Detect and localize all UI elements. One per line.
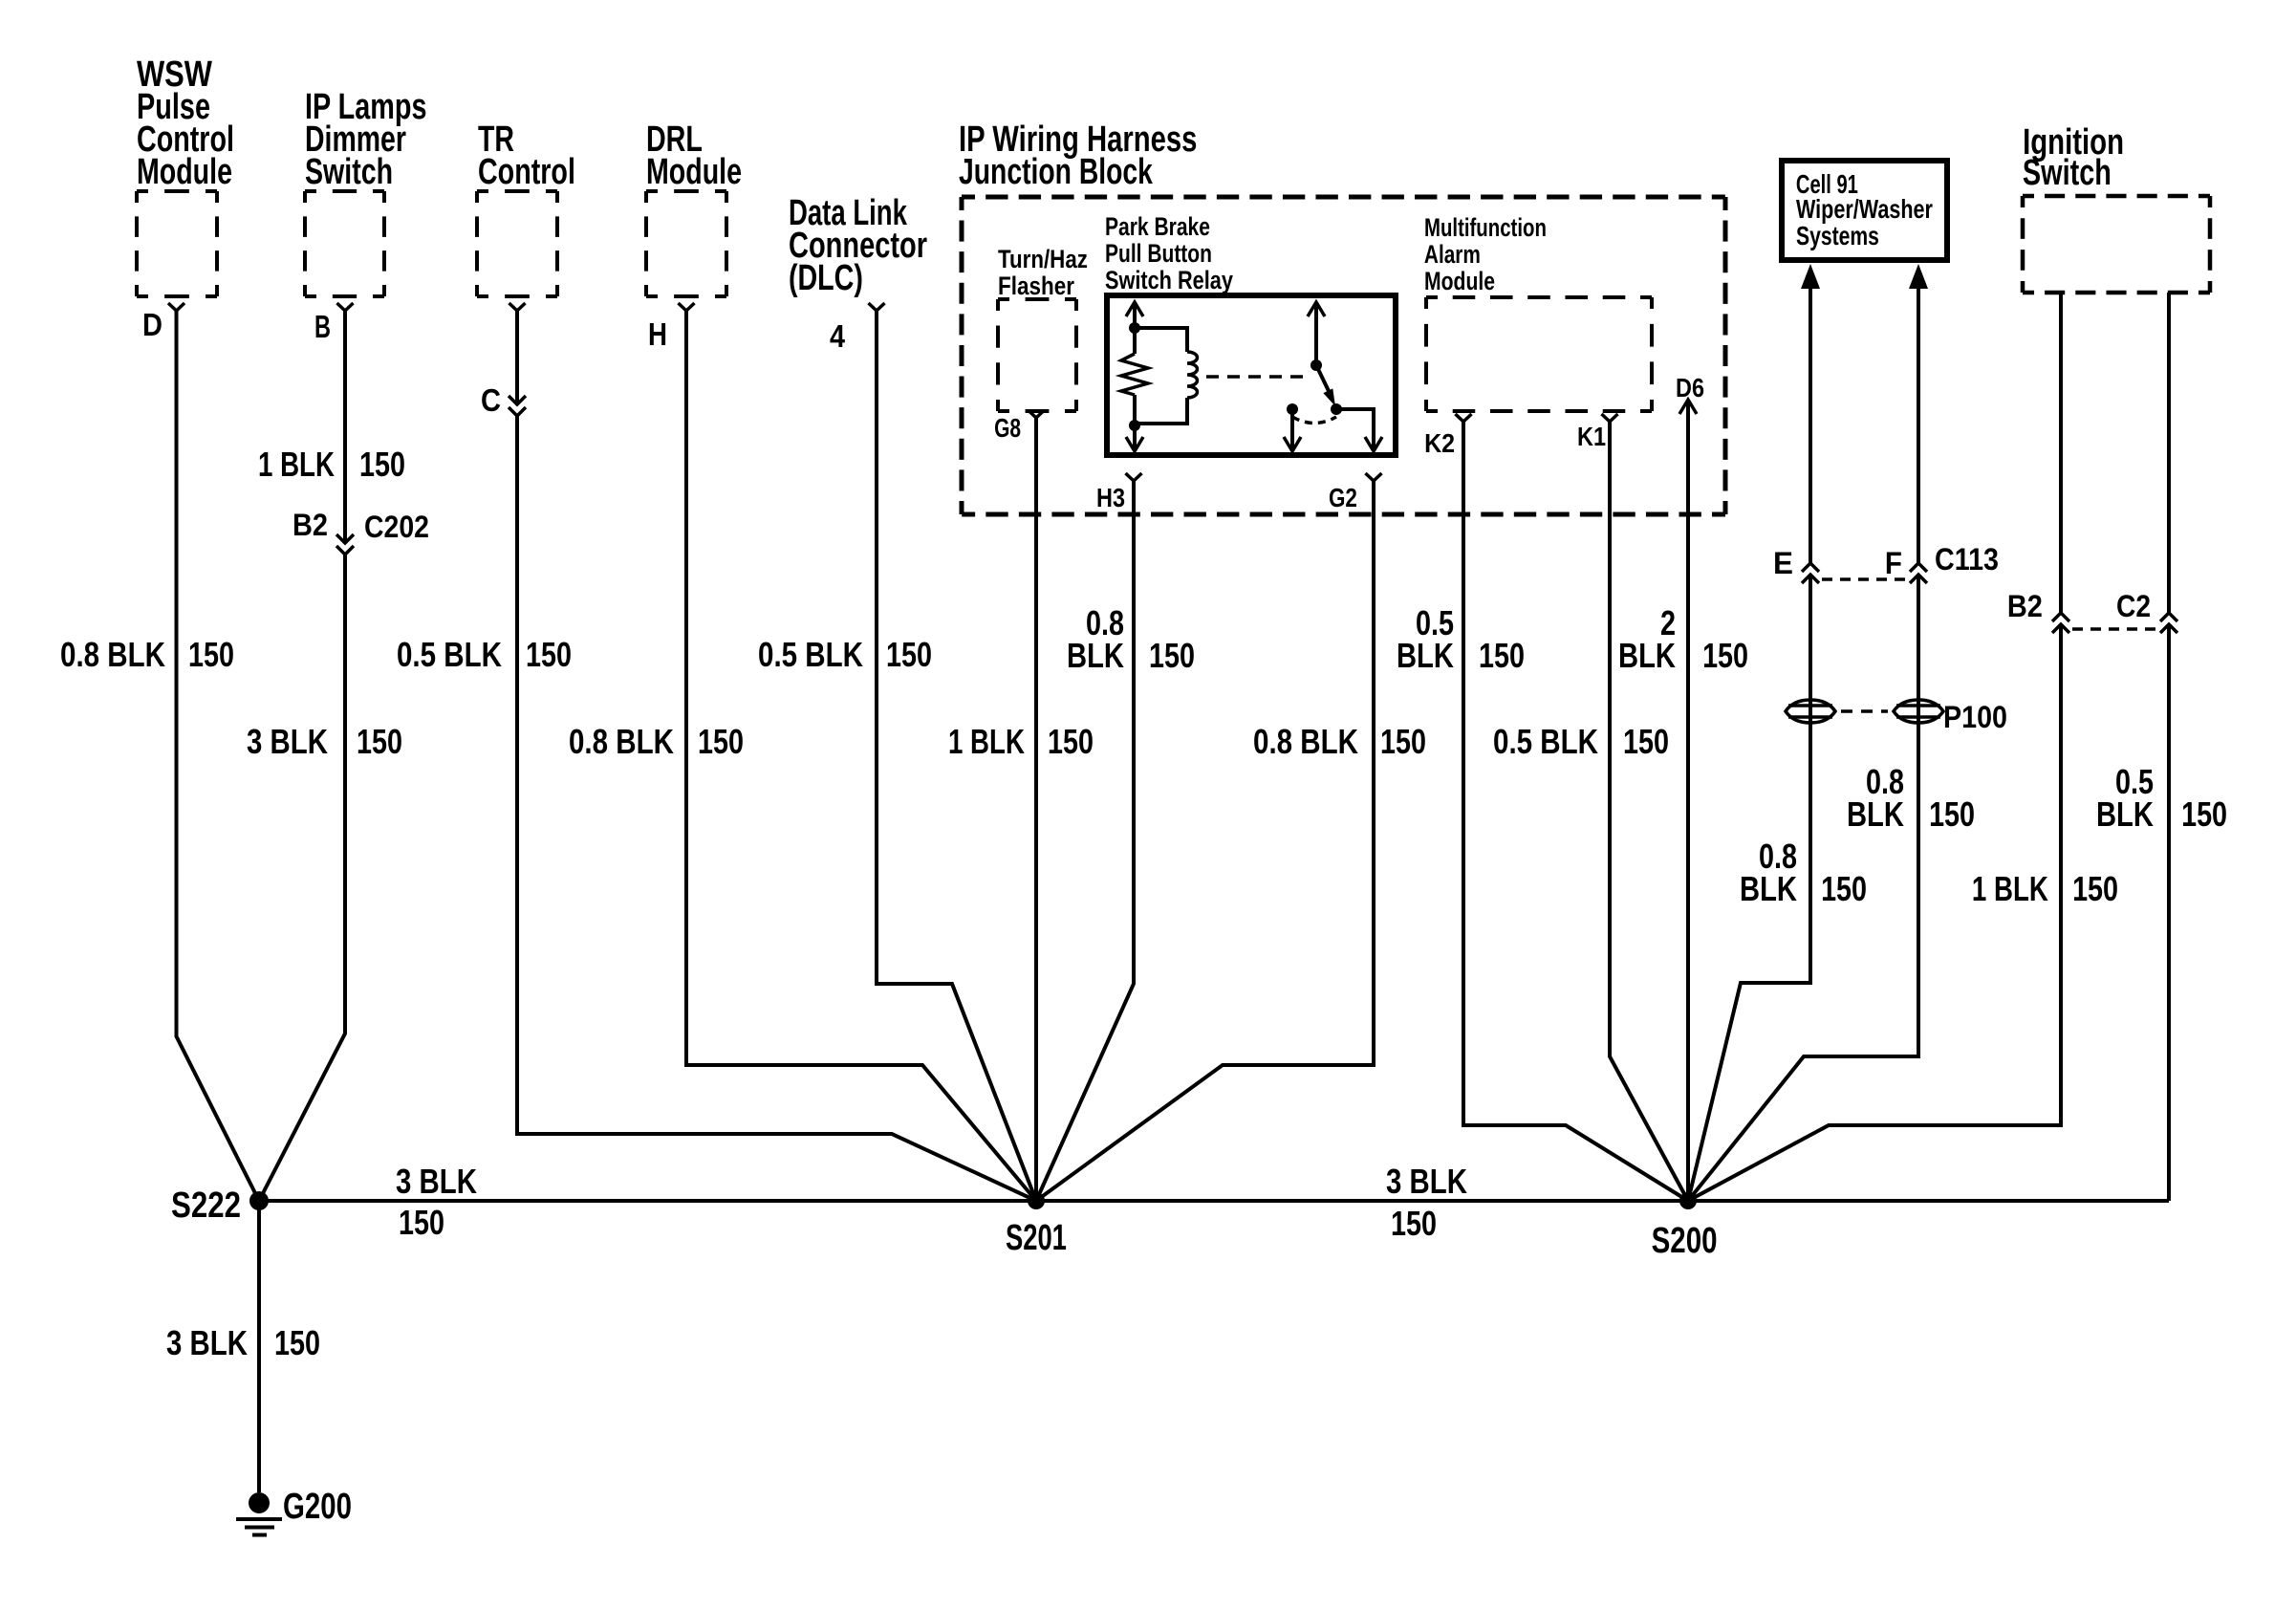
- connector pin of TR Control: [509, 303, 526, 311]
- node Data Link Connector (DLC): [789, 193, 927, 298]
- svg-text:H3: H3: [1096, 484, 1125, 512]
- connector pin K2 of Multifunction Alarm Module: [1424, 414, 1471, 458]
- svg-text:150: 150: [359, 446, 405, 484]
- module Ignition Switch (dashed box): [2023, 121, 2210, 293]
- svg-text:C2: C2: [2116, 590, 2151, 623]
- connector pin G8 of Turn/Haz Flasher: [994, 410, 1044, 444]
- wire 3 BLK 150 from C202 to splice S222: [247, 555, 402, 1201]
- svg-text:S201: S201: [1006, 1218, 1067, 1258]
- wire ground bus 3 BLK 150 (S222 to S201 to S200 to C2 wire): [259, 1162, 2169, 1243]
- svg-text:Wiper/Washer: Wiper/Washer: [1796, 194, 1933, 224]
- svg-text:150: 150: [2181, 795, 2227, 834]
- connector C (inline double chevron on TR wire): [481, 382, 526, 418]
- wire 0.8 BLK 150 from pin D to splice S222: [60, 311, 259, 1201]
- connector pin G2 of relay: [1329, 473, 1382, 513]
- svg-text:150: 150: [357, 723, 402, 761]
- svg-text:(DLC): (DLC): [789, 258, 863, 298]
- svg-text:4: 4: [830, 318, 846, 354]
- svg-text:Pull Button: Pull Button: [1105, 240, 1212, 269]
- connector C202 pin B2 (inline double chevron): [292, 509, 429, 555]
- splice S222: [171, 1186, 269, 1226]
- relay switch blade with solid arrowhead: [1316, 365, 1335, 406]
- svg-text:BLK: BLK: [1067, 636, 1124, 675]
- svg-text:G200: G200: [283, 1486, 352, 1526]
- svg-text:B2: B2: [292, 509, 328, 543]
- svg-text:B: B: [314, 310, 331, 345]
- wire from TR Control to connector C: [515, 311, 519, 404]
- connector pin K1 of Multifunction Alarm Module: [1577, 414, 1617, 452]
- wire F with solid arrow into Cell 91: [1909, 264, 1928, 563]
- svg-text:Flasher: Flasher: [998, 272, 1074, 300]
- connector pin 4 of DLC: [830, 303, 884, 354]
- wire 1 BLK 150 from Ignition Switch pin B2 to splice S200: [1688, 293, 2118, 1201]
- svg-text:Junction Block: Junction Block: [959, 152, 1153, 192]
- svg-text:1 BLK: 1 BLK: [948, 722, 1025, 760]
- svg-text:E: E: [1773, 546, 1793, 580]
- wire 1 BLK 150 from pin G8 to splice S201: [948, 418, 1094, 1201]
- svg-text:150: 150: [526, 636, 572, 674]
- wire 0.5 BLK 150 from Ignition Switch pin C2 to ground bus: [2096, 293, 2227, 1201]
- svg-text:0.8 BLK: 0.8 BLK: [60, 635, 165, 673]
- svg-text:Multifunction: Multifunction: [1424, 213, 1547, 242]
- wire 0.8 BLK 150 from pin H to splice S201: [569, 311, 1036, 1201]
- svg-text:BLK: BLK: [1847, 794, 1904, 834]
- svg-text:150: 150: [274, 1324, 320, 1362]
- wire E with solid arrow into Cell 91: [1801, 264, 1820, 563]
- module TR Control: [477, 120, 575, 296]
- svg-text:Systems: Systems: [1796, 222, 1879, 250]
- dashed actuation line from coil to switch: [1206, 375, 1310, 379]
- splice S200: [1652, 1192, 1718, 1261]
- wire 3 BLK 150 from splice S222 to ground G200: [166, 1201, 320, 1492]
- svg-text:Switch Relay: Switch Relay: [1105, 267, 1233, 295]
- svg-text:0.5 BLK: 0.5 BLK: [758, 635, 863, 673]
- svg-text:150: 150: [1702, 637, 1748, 675]
- svg-text:3 BLK: 3 BLK: [247, 722, 328, 761]
- svg-text:0.8 BLK: 0.8 BLK: [1253, 722, 1358, 760]
- svg-text:1 BLK: 1 BLK: [258, 445, 335, 483]
- splice S201: [1006, 1192, 1067, 1258]
- relay Park Brake Pull Button Switch Relay (solid box): [1105, 213, 1396, 455]
- box Cell 91 Wiper/Washer Systems: [1782, 161, 1947, 260]
- Multifunction Alarm Module (dashed box): [1424, 213, 1652, 411]
- svg-text:BLK: BLK: [2096, 794, 2154, 834]
- connector C113 pins E and F (inline double chevrons): [1773, 543, 1999, 583]
- svg-text:Module: Module: [1424, 268, 1495, 296]
- svg-text:Park Brake: Park Brake: [1105, 213, 1210, 242]
- svg-text:150: 150: [2072, 870, 2118, 908]
- connector pins B2 and C2 (inline double chevrons below Ignition Switch): [2007, 590, 2177, 633]
- IP Wiring Harness Junction Block (dashed boundary): [959, 119, 1725, 514]
- svg-text:150: 150: [698, 723, 744, 761]
- Turn/Haz Flasher (dashed box): [998, 246, 1088, 411]
- wire 0.8 BLK 150 from pin H3 to splice S201: [1036, 481, 1195, 1201]
- wire 0.5 BLK 150 from DLC pin 4 to splice S201: [758, 311, 1036, 1201]
- resistor inside relay: [1121, 354, 1148, 395]
- svg-text:K2: K2: [1424, 428, 1455, 459]
- module IP Lamps Dimmer Switch: [305, 86, 426, 296]
- svg-text:150: 150: [1821, 870, 1867, 908]
- relay right contact leg to G2 exit with down arrow: [1336, 409, 1382, 451]
- module WSW Pulse Control Module: [137, 54, 234, 296]
- wire 0.8 BLK 150 segment E to splice S200: [1688, 575, 1867, 1201]
- svg-text:150: 150: [188, 636, 234, 674]
- svg-text:F: F: [1885, 546, 1902, 580]
- connector pin B of IP Lamps Dimmer Switch: [314, 303, 353, 345]
- svg-text:Module: Module: [646, 152, 742, 192]
- svg-text:150: 150: [1479, 637, 1525, 675]
- svg-text:Turn/Haz: Turn/Haz: [998, 246, 1088, 273]
- module DRL Module: [646, 120, 742, 296]
- svg-text:Alarm: Alarm: [1424, 240, 1481, 269]
- svg-text:150: 150: [1391, 1205, 1437, 1243]
- svg-text:D: D: [142, 307, 162, 342]
- svg-text:150: 150: [1048, 723, 1094, 761]
- svg-text:B2: B2: [2007, 590, 2043, 624]
- svg-text:3 BLK: 3 BLK: [166, 1323, 248, 1362]
- connector pin H3 of relay: [1096, 473, 1141, 513]
- svg-text:K1: K1: [1577, 423, 1606, 451]
- svg-text:1 BLK: 1 BLK: [1972, 869, 2048, 907]
- svg-text:0.5 BLK: 0.5 BLK: [397, 635, 502, 673]
- svg-text:Control: Control: [478, 152, 575, 192]
- connector pin D of WSW module: [142, 303, 184, 342]
- svg-text:0.8 BLK: 0.8 BLK: [569, 722, 674, 760]
- svg-text:C202: C202: [364, 511, 429, 545]
- svg-text:150: 150: [1380, 723, 1426, 761]
- svg-text:3 BLK: 3 BLK: [1386, 1162, 1467, 1201]
- svg-text:Switch: Switch: [2023, 152, 2112, 193]
- relay contacts (dots) and dashed travel arc: [1287, 403, 1342, 424]
- wire 0.8 BLK 150 from pin G2 to splice S201: [1036, 481, 1426, 1201]
- svg-text:Module: Module: [137, 152, 232, 192]
- wire 0.8 BLK 150 segment F to splice S200: [1688, 575, 1975, 1201]
- svg-text:D6: D6: [1676, 374, 1704, 402]
- svg-text:BLK: BLK: [1397, 636, 1454, 675]
- relay switch pivot leg with up arrow: [1308, 302, 1325, 371]
- wire 0.5 BLK 150 from pin K2 to splice S200: [1397, 422, 1688, 1201]
- relay left contact leg with down arrow: [1284, 409, 1301, 451]
- inductor coil inside relay: [1135, 328, 1198, 424]
- svg-text:BLK: BLK: [1740, 869, 1797, 908]
- relay coil-side leg (up arrow, junction dots, down arrow): [1126, 302, 1143, 451]
- svg-text:150: 150: [1623, 723, 1669, 761]
- svg-text:H: H: [648, 317, 667, 353]
- connector pin H of DRL Module: [648, 303, 695, 353]
- svg-text:BLK: BLK: [1618, 636, 1676, 675]
- wire 1 BLK 150 from pin B to connector C202: [258, 311, 405, 543]
- svg-text:150: 150: [1149, 637, 1195, 675]
- ground G200: [236, 1486, 352, 1534]
- svg-text:G8: G8: [994, 414, 1021, 444]
- svg-text:G2: G2: [1329, 484, 1357, 513]
- svg-text:C: C: [481, 382, 501, 418]
- wire D6 2 BLK 150 (up arrow) from splice S200: [1618, 374, 1748, 1201]
- svg-text:150: 150: [1929, 795, 1975, 834]
- svg-text:Switch: Switch: [305, 152, 393, 192]
- svg-text:150: 150: [399, 1204, 444, 1242]
- wire 0.5 BLK 150 from connector C to splice S201: [397, 416, 1036, 1201]
- wire 0.5 BLK 150 from pin K1 to splice S200: [1493, 422, 1688, 1201]
- svg-text:P100: P100: [1943, 701, 2007, 735]
- svg-text:C113: C113: [1935, 543, 1999, 577]
- svg-text:S222: S222: [171, 1186, 241, 1226]
- svg-text:3 BLK: 3 BLK: [396, 1162, 477, 1201]
- svg-text:S200: S200: [1652, 1221, 1718, 1261]
- grommet P100 on wires E and F: [1786, 700, 2007, 734]
- svg-text:150: 150: [886, 636, 932, 674]
- svg-text:0.5 BLK: 0.5 BLK: [1493, 722, 1598, 760]
